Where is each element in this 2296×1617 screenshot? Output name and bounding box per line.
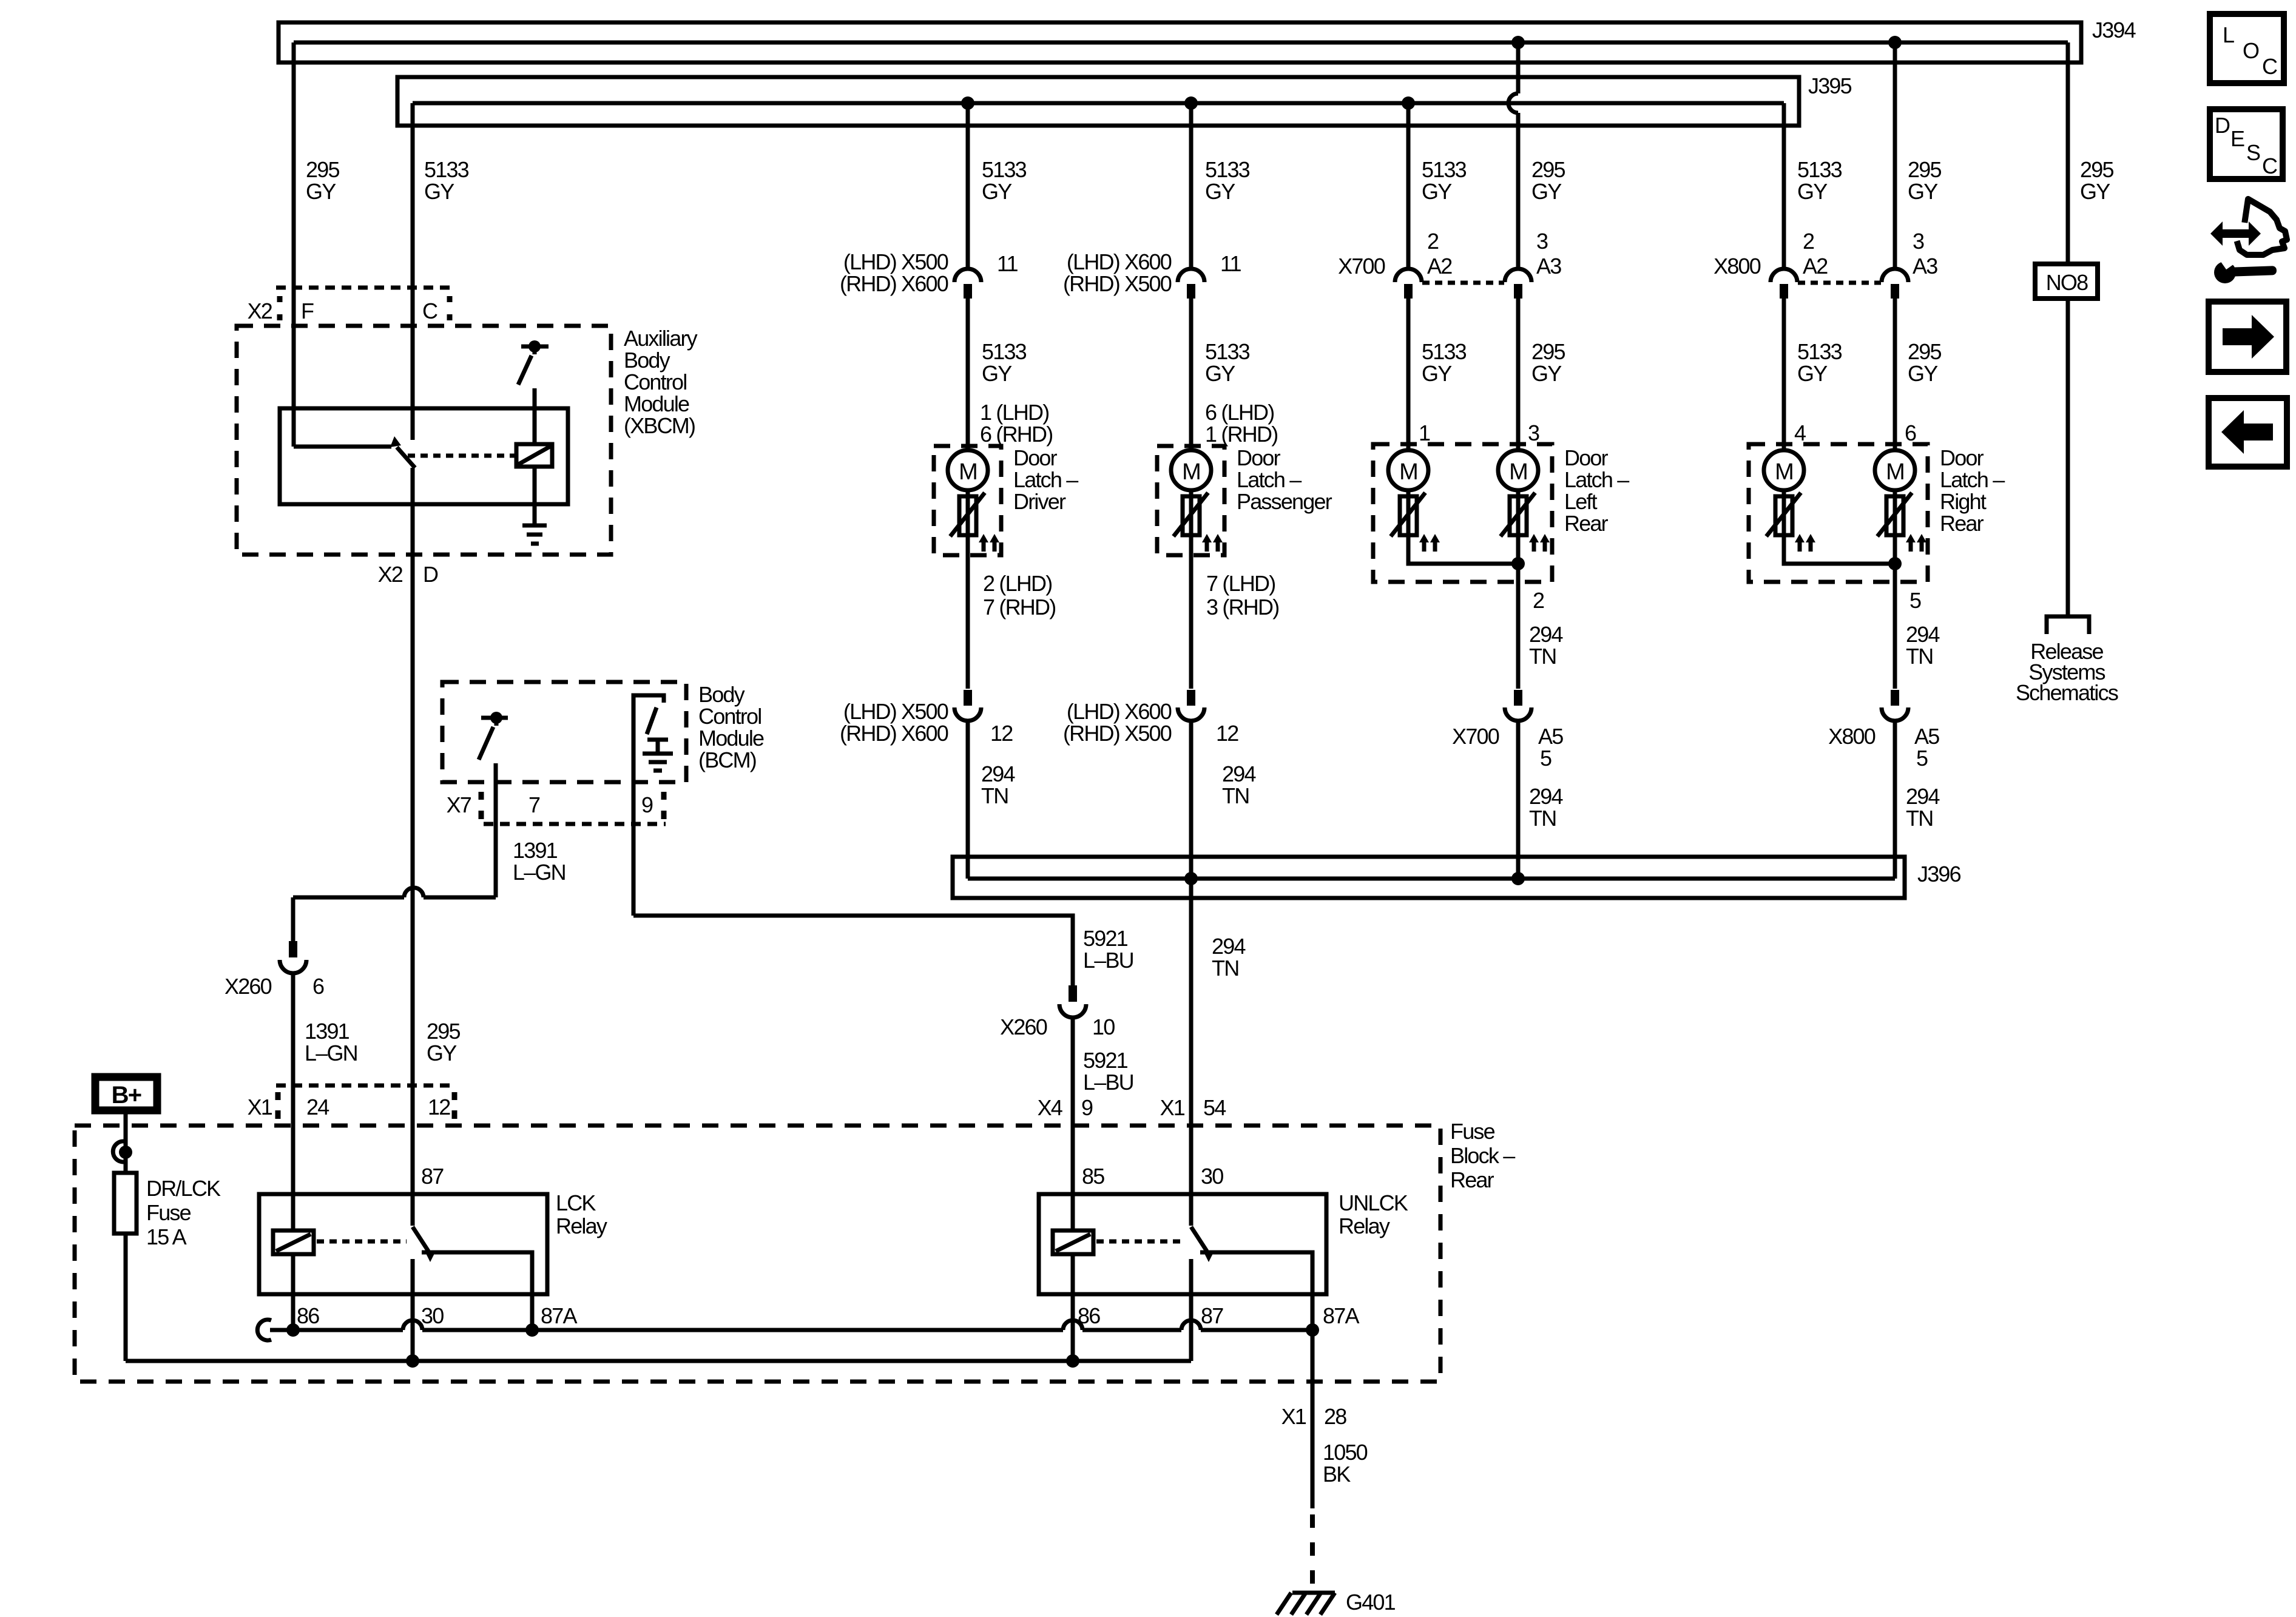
svg-text:A3: A3 [1913,254,1937,279]
wire LCK coil to 86 link [291,1254,295,1330]
wire 5133 GY X800-A2 to Door Latch Right Rear pin 4 [1782,299,1786,459]
wire J395 internal bus (5133 GY) [413,101,1784,106]
door latch left rear module box [1373,444,1552,582]
node LCK-86 on link [286,1323,300,1337]
svg-text:D: D [423,562,438,587]
svg-text:NO8: NO8 [2046,270,2088,295]
svg-text:M: M [1509,459,1527,485]
svg-text:Rear: Rear [1564,511,1609,536]
svg-text:294: 294 [1906,622,1939,647]
svg-text:LCK: LCK [556,1190,596,1215]
wire UNLCK coil 86 to B+ rail [1071,1254,1075,1361]
connector X1 box (24/12) [276,1085,456,1119]
svg-text:L–BU: L–BU [1083,1070,1133,1095]
wire 295 GY NO8 to Release Systems Schematics [2066,299,2070,616]
svg-text:Schematics: Schematics [2016,680,2118,705]
svg-text:TN: TN [1906,806,1933,831]
svg-text:A2: A2 [1427,254,1452,279]
svg-text:(XBCM): (XBCM) [624,413,695,438]
svg-text:5133: 5133 [1205,339,1250,364]
wire 1050 BK from 87A link to ground [1311,1330,1315,1508]
splice bus J395 [397,77,1799,126]
fork symbol to Release Systems Schematics [2047,616,2089,634]
svg-text:54: 54 [1203,1095,1226,1120]
connector X800 pin A3 symbol [1882,269,1908,282]
svg-text:X1: X1 [1160,1095,1185,1120]
relay coil (XBCM) [516,444,552,467]
node UNLCK-86 to B+ rail [1066,1354,1079,1368]
actuation arrows (right rear lock) [1795,534,1815,552]
relay coil (UNLCK) [1053,1230,1093,1254]
svg-text:2 (LHD): 2 (LHD) [983,571,1052,596]
icon back arrow box [2209,398,2287,467]
svg-text:3: 3 [1536,229,1548,254]
relay coil to blade dashed link (XBCM) [408,454,515,458]
connector X800 pin A2 symbol [1771,269,1797,282]
wire 5133 GY connector to Door Latch Passenger pin [1189,299,1194,689]
wire 295 GY J394 to X700-A3 with hop over J395 bus [1508,42,1518,269]
relay 87A branch (UNLCK) [1200,1252,1312,1330]
svg-text:5133: 5133 [1797,339,1842,364]
svg-text:15 A: 15 A [146,1224,187,1249]
svg-text:J394: J394 [2092,18,2136,42]
wire 294 TN passenger latch through J396 to UNLCK relay 30 [1189,721,1194,1226]
wire 5133 GY J395 to X700-A2 [1406,103,1411,269]
svg-text:Door: Door [1564,445,1609,470]
wire 295 GY J394 to X800-A3 [1893,42,1897,269]
icon diagnostic tool (double arrow, outline, wrench) [2210,199,2287,283]
XBCM internal sensor switch blade [518,356,532,385]
motor M (right rear unlock) [1875,450,1915,490]
svg-text:1050: 1050 [1323,1440,1368,1465]
svg-text:Control: Control [698,704,761,729]
node LCK-30 to B+ rail [406,1354,419,1368]
svg-text:1 (LHD): 1 (LHD) [980,400,1048,425]
svg-text:11: 11 [997,251,1018,276]
svg-text:295: 295 [1531,157,1565,182]
XBCM internal relay box [280,408,568,504]
BCM lock switch contact [481,712,508,726]
wire 1391 L-GN down to X260-6 [291,897,295,941]
svg-text:Door: Door [1940,445,1984,470]
svg-text:Latch –: Latch – [1013,467,1078,492]
svg-text:5133: 5133 [982,339,1027,364]
wire lock motor branch (right rear) [1784,490,1895,564]
svg-text:295: 295 [427,1019,460,1044]
svg-text:GY: GY [1422,361,1452,386]
svg-text:L–BU: L–BU [1083,948,1133,973]
svg-text:C: C [2262,54,2277,79]
wire J394 internal bus (295 GY) [294,41,2068,45]
wire B+ to DR/LCK fuse [124,1114,128,1173]
svg-text:85: 85 [1082,1164,1104,1189]
wire 295 GY from XBCM pin D down to LCK relay 87 [411,468,415,1226]
battery feed B+ [95,1077,157,1110]
svg-text:30: 30 [421,1303,444,1328]
svg-text:GY: GY [424,179,454,204]
icon LOC box [2210,14,2284,83]
svg-text:6 (LHD): 6 (LHD) [1205,400,1274,425]
svg-text:X800: X800 [1828,724,1876,749]
PTC thermistor (right rear lock) [1766,493,1801,536]
wire motor to PTC (passenger) [1189,490,1194,689]
svg-text:Passenger: Passenger [1237,489,1332,514]
svg-text:GY: GY [306,179,336,204]
connector X2 box (F/C) [276,288,452,320]
door latch passenger module box [1157,446,1224,555]
module Fuse Block - Rear box [75,1126,1440,1382]
svg-text:TN: TN [981,783,1008,808]
svg-text:L–GN: L–GN [305,1041,357,1065]
PTC thermistor (passenger latch) [1173,493,1208,536]
svg-text:294: 294 [981,761,1015,786]
svg-text:X2: X2 [378,562,403,587]
svg-text:(LHD) X500: (LHD) X500 [843,249,948,274]
svg-text:X700: X700 [1338,254,1385,279]
svg-text:1 (RHD): 1 (RHD) [1205,422,1277,447]
svg-text:GY: GY [982,361,1012,386]
svg-text:Rear: Rear [1450,1167,1494,1192]
wire motor to PTC (driver) [966,490,970,689]
connector X800 pin A5 symbol [1891,690,1899,706]
icon DESC box [2210,109,2283,179]
svg-text:E: E [2230,126,2244,151]
svg-text:O: O [2243,38,2259,63]
svg-text:2: 2 [1427,229,1439,254]
motor M (right rear lock) [1764,450,1804,490]
svg-text:Latch –: Latch – [1564,467,1629,492]
svg-text:L–GN: L–GN [513,860,566,885]
svg-text:Relay: Relay [1339,1214,1390,1238]
svg-text:Block –: Block – [1450,1143,1515,1168]
svg-text:(RHD) X600: (RHD) X600 [840,721,948,746]
connector X500/X600 pin 12 symbol [964,690,972,706]
connector X700 pin A3 symbol [1505,269,1531,282]
svg-text:Left: Left [1564,489,1598,514]
motor M (left rear lock) [1388,450,1428,490]
svg-text:M: M [1775,459,1793,485]
relay blade arrowhead (UNLCK) [1204,1252,1214,1262]
svg-text:C: C [2262,154,2277,178]
svg-text:Door: Door [1013,445,1058,470]
svg-text:9: 9 [641,792,653,817]
svg-text:6: 6 [1905,420,1916,445]
svg-text:(LHD) X600: (LHD) X600 [1067,699,1172,724]
wire unlock motor to pin 2 (left rear) [1516,490,1521,689]
svg-text:12: 12 [1216,721,1238,746]
svg-text:X1: X1 [248,1095,272,1119]
svg-text:GY: GY [427,1041,457,1065]
wire 5921 L-BU X260 to UNLCK relay 85 [1071,1018,1075,1230]
svg-text:295: 295 [1908,157,1941,182]
svg-text:30: 30 [1201,1164,1223,1189]
PTC thermistor (right rear unlock) [1877,493,1912,536]
svg-text:294: 294 [1529,784,1562,809]
connector X260 pin 6 symbol [289,941,297,957]
wire 5133 GY from J395 internal bus end to X800-A2 [1782,103,1786,269]
wire 294 TN X700-A5 to J396 [1516,721,1521,879]
PTC thermistor (driver latch) [950,493,985,536]
svg-text:BK: BK [1323,1462,1351,1487]
wire J396 internal bus (294 TN) [968,877,1895,881]
module Body Control Module (BCM) box [442,682,686,782]
actuation arrows (driver latch) [979,534,999,552]
svg-text:(RHD) X500: (RHD) X500 [1063,721,1172,746]
svg-text:3 (RHD): 3 (RHD) [1206,595,1278,619]
node motor join (left rear) [1511,557,1525,570]
wire 5133 GY connector to Door Latch Driver pin [966,299,970,689]
svg-text:7 (LHD): 7 (LHD) [1206,571,1275,596]
svg-text:B+: B+ [112,1082,141,1109]
wire lock motor branch (left rear) [1408,490,1518,564]
svg-text:Fuse: Fuse [1450,1119,1495,1144]
svg-text:GY: GY [1908,361,1938,386]
svg-text:Body: Body [698,682,745,707]
svg-text:2: 2 [1803,229,1814,254]
splice bus J396 [953,857,1905,898]
svg-text:X1: X1 [1281,1404,1306,1429]
svg-text:3: 3 [1528,420,1539,445]
svg-text:12: 12 [990,721,1013,746]
svg-text:M: M [1886,459,1904,485]
svg-text:294: 294 [1222,761,1255,786]
svg-text:M: M [1399,459,1417,485]
svg-text:(LHD) X600: (LHD) X600 [1067,249,1172,274]
svg-text:A3: A3 [1536,254,1561,279]
node splice J395/passenger [1184,96,1198,110]
svg-text:J395: J395 [1808,73,1852,98]
BCM ground switch wire [633,695,664,916]
node splice J395/driver [961,96,974,110]
svg-text:294: 294 [1529,622,1562,647]
svg-text:L: L [2223,22,2234,47]
svg-text:294: 294 [1212,934,1245,959]
svg-text:Body: Body [624,348,670,373]
node splice J394/right-rear A3 [1888,36,1902,49]
actuation arrows (left rear lock) [1419,534,1440,552]
svg-text:GY: GY [2080,179,2110,204]
svg-text:GY: GY [1797,179,1828,204]
svg-text:Control: Control [624,370,686,394]
svg-text:X4: X4 [1038,1095,1062,1120]
ground G401 symbol [1277,1593,1335,1615]
svg-text:C: C [422,299,437,323]
connector X700 A2-A3 dashed link [1422,281,1504,285]
svg-text:Auxiliary: Auxiliary [624,326,698,351]
relay switch blade (UNLCK) [1191,1227,1207,1251]
svg-text:GY: GY [1422,179,1452,204]
wire 295 GY X700-A3 to Door Latch Left Rear pin 3 [1516,299,1521,459]
connector X800 A2-A3 dashed link [1798,281,1881,285]
wire 295 GY from J394 to XBCM pin F [292,42,296,447]
module Auxiliary Body Control Module (XBCM) box [237,326,611,555]
svg-text:S: S [2246,140,2260,165]
actuation arrows (left rear unlock) [1529,534,1550,552]
svg-text:5133: 5133 [424,157,469,182]
hop arcs on 86-87A link [403,1320,1201,1330]
relay coil to blade dashed link (UNLCK) [1096,1240,1185,1244]
svg-text:GY: GY [1531,179,1562,204]
svg-text:5133: 5133 [1797,157,1842,182]
svg-text:87: 87 [421,1164,444,1189]
relay LCK box [259,1194,547,1294]
svg-text:GY: GY [1205,179,1235,204]
relay coil to blade dashed link (LCK) [317,1240,407,1244]
svg-text:X700: X700 [1452,724,1499,749]
door latch right rear module box [1749,444,1928,582]
relay switch blade (XBCM) [397,447,415,468]
svg-text:1391: 1391 [305,1019,349,1044]
svg-text:10: 10 [1092,1014,1115,1039]
svg-text:295: 295 [306,157,339,182]
svg-text:87A: 87A [1323,1303,1359,1328]
svg-text:UNLCK: UNLCK [1339,1190,1408,1215]
wire relay 87 to B+ rail (UNLCK) [1189,1259,1194,1361]
svg-text:86: 86 [297,1303,319,1328]
svg-text:DR/LCK: DR/LCK [146,1176,221,1201]
svg-text:295: 295 [1908,339,1941,364]
svg-text:A2: A2 [1803,254,1828,279]
svg-text:X2: X2 [248,299,272,323]
wire 295 GY X800-A3 to Door Latch Right Rear pin 6 [1893,299,1897,459]
node splice J394/left-rear A3 [1511,36,1525,49]
splice curl on B+ feed [113,1141,127,1162]
svg-text:12: 12 [428,1095,450,1119]
svg-text:Module: Module [624,391,689,416]
svg-text:TN: TN [1529,644,1556,669]
svg-text:5: 5 [1916,746,1928,771]
svg-text:TN: TN [1529,806,1556,831]
splice curl on 86/87A link [257,1320,271,1340]
ground symbol (XBCM internal) [522,525,547,544]
svg-text:295: 295 [2080,157,2113,182]
svg-text:28: 28 [1324,1404,1346,1429]
wire 5133 GY J395 to connector X500-11 (driver) [966,103,970,269]
PTC thermistor (left rear lock) [1391,493,1425,536]
svg-text:X260: X260 [1000,1014,1047,1039]
svg-text:A5: A5 [1538,724,1563,749]
svg-text:6 (RHD): 6 (RHD) [980,422,1052,447]
svg-text:5133: 5133 [982,157,1027,182]
node motor join (right rear) [1888,557,1902,570]
door latch driver module box [934,446,1001,555]
node LCK-87A on link [525,1323,539,1337]
svg-text:GY: GY [1205,361,1235,386]
wire 5133 GY X700-A2 to Door Latch Left Rear pin 1 [1406,299,1411,459]
connector X7 box [481,792,666,824]
node splice J396/passenger [1184,872,1198,885]
fuse DR/LCK 15 A [114,1173,137,1234]
svg-text:TN: TN [1212,956,1238,981]
B+ distribution rail [126,1359,1191,1363]
svg-text:Door: Door [1237,445,1281,470]
wire 5921 L-BU from BCM pin 9 to X260-10 [633,916,1073,985]
svg-text:295: 295 [1531,339,1565,364]
relay blade arrowhead (LCK) [425,1252,435,1262]
svg-text:7: 7 [528,792,540,817]
svg-text:24: 24 [306,1095,329,1119]
svg-text:GY: GY [1908,179,1938,204]
wire 295 GY from J394 internal bus end to NO8 [2066,42,2070,264]
XBCM internal sensor switch contact [521,340,549,354]
wire pin F to relay switch contact (XBCM) [294,445,391,449]
svg-text:2: 2 [1533,588,1544,613]
motor M (passenger latch) [1171,450,1211,490]
connector X500/X600 pin 11 symbol [954,269,981,282]
svg-text:TN: TN [1906,644,1933,669]
wire 5133 GY J395 to connector X600-11 (passenger) [1189,103,1194,269]
svg-text:TN: TN [1222,783,1249,808]
svg-text:M: M [959,459,977,485]
svg-text:86: 86 [1078,1303,1100,1328]
svg-text:F: F [301,299,314,323]
svg-text:5921: 5921 [1083,1048,1128,1073]
svg-text:(RHD) X600: (RHD) X600 [840,271,948,296]
wire 5133 GY from J395 to XBCM pin C [411,103,415,440]
svg-text:(LHD) X500: (LHD) X500 [843,699,948,724]
svg-text:7 (RHD): 7 (RHD) [983,595,1055,619]
svg-text:Driver: Driver [1013,489,1066,514]
svg-text:GY: GY [1531,361,1562,386]
connector X600/X500 pin 11 symbol [1178,269,1204,282]
relay UNLCK box [1039,1194,1326,1294]
relay switch blade (LCK) [413,1227,428,1251]
svg-text:6: 6 [312,974,324,999]
svg-text:G401: G401 [1346,1590,1396,1615]
node UNLCK-87A on link [1306,1323,1319,1337]
wire relay 30 to B+ rail (LCK) [411,1259,415,1361]
motor M (left rear unlock) [1498,450,1538,490]
svg-text:5133: 5133 [1422,157,1467,182]
svg-text:11: 11 [1220,251,1241,276]
svg-text:9: 9 [1081,1095,1093,1120]
icon forward arrow box [2209,302,2286,372]
svg-text:Latch –: Latch – [1237,467,1302,492]
wire 294 TN driver latch to J396 [966,721,970,879]
BCM lock switch blade [479,727,493,760]
actuation arrows (right rear unlock) [1906,534,1926,552]
svg-text:1: 1 [1419,420,1430,445]
wire BCM pin 7 (1391 L-GN) [494,763,498,897]
node splice J396/left-rear [1511,872,1525,885]
svg-text:(RHD) X500: (RHD) X500 [1063,271,1172,296]
svg-text:J396: J396 [1917,862,1961,886]
wire 1391 L-GN horizontal run with hop over 295 GY wire [293,888,496,897]
wire 294 TN X800-A5 to J396 [1893,721,1897,879]
svg-text:3: 3 [1913,229,1924,254]
ground symbol (BCM internal) [643,740,673,771]
connector X260 pin 10 symbol [1069,985,1077,1002]
wire 1391 L-GN X260 to fuse block X1-24 [291,973,295,1230]
connector X700 pin A2 symbol [1395,269,1422,282]
svg-text:GY: GY [982,179,1012,204]
PTC thermistor (left rear unlock) [1501,493,1535,536]
relay 87A branch (LCK) [422,1252,532,1330]
dashed continuation of 1050 BK [1310,1514,1315,1590]
node splice J395/left-rear A2 [1402,96,1415,110]
wire unlock motor to pin 5 (right rear) [1893,490,1897,689]
svg-text:M: M [1182,459,1200,485]
connector X700 pin A5 symbol [1514,690,1522,706]
svg-text:87: 87 [1201,1303,1223,1328]
wire relay coil to ground (XBCM) [533,467,537,525]
svg-text:5133: 5133 [1205,157,1250,182]
svg-text:(BCM): (BCM) [698,748,756,772]
svg-text:4: 4 [1794,420,1806,445]
wire fuse to B+ rail [124,1234,128,1361]
svg-text:5133: 5133 [1422,339,1467,364]
svg-text:Module: Module [698,726,764,751]
